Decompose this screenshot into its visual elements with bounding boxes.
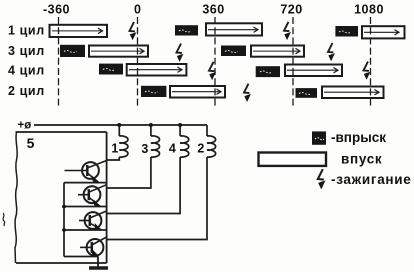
svg-text:-впрыск: -впрыск: [331, 130, 386, 145]
intake box cyl1 cycle1: [50, 25, 108, 37]
legend ignition bolt: [318, 169, 326, 189]
svg-text:+ø: +ø: [18, 119, 32, 131]
ignition mark cyl4 cycle1: [209, 62, 216, 80]
ignition mark cyl4 cycle2: [364, 62, 371, 80]
ignition mark cyl3 cycle1: [177, 44, 184, 62]
emitter rail 1: [64, 182, 107, 184]
injection box cyl1 cycle3: [335, 26, 358, 37]
injection box cyl1 cycle2: [175, 25, 198, 35]
ground: [89, 266, 108, 269]
ignition mark cyl1 cycle2: [284, 22, 291, 40]
intake box cyl2 cycle1: [170, 86, 225, 98]
injection box cyl4 cycle2: [256, 66, 280, 77]
junction coil4: [178, 123, 182, 127]
timeline 360: [214, 17, 216, 106]
transistor VT1: [65, 161, 107, 183]
emitter rail 4: [64, 256, 98, 258]
injection box cyl2 cycle2: [296, 88, 318, 98]
control unit box 5 bottom edge: [16, 262, 107, 264]
coil L1 lead: [118, 125, 120, 136]
transistor VT4: [80, 237, 107, 257]
legend intake swatch: [259, 153, 327, 166]
coil L3 lead: [150, 125, 152, 136]
timeline 720: [292, 17, 294, 106]
junction coil1: [117, 123, 121, 127]
ignition mark cyl3 cycle2: [328, 43, 335, 61]
svg-text:впуск: впуск: [341, 151, 382, 166]
svg-text:360: 360: [202, 3, 224, 17]
transistor VT2: [78, 185, 107, 207]
control unit box 5 torn left edge: [15, 132, 17, 263]
intake box cyl3 cycle2: [251, 46, 304, 57]
intake box cyl4 cycle1: [127, 64, 187, 76]
svg-text:-360: -360: [43, 3, 70, 17]
intake box cyl4 cycle2: [285, 65, 342, 77]
injection box cyl3 cycle2: [221, 46, 246, 57]
emitter rail 2: [64, 206, 107, 208]
injection box cyl4 cycle1: [99, 64, 123, 75]
svg-text:4 цил: 4 цил: [8, 63, 45, 77]
emitter rail 3: [64, 229, 107, 231]
junction coil3: [149, 123, 153, 127]
ignition mark cyl1 cycle1: [130, 22, 137, 40]
svg-text:0: 0: [134, 3, 141, 17]
coil L1 bottom wire: [107, 157, 120, 160]
control unit box 5 right edge: [106, 132, 108, 263]
svg-text:-зажигание: -зажигание: [331, 172, 412, 187]
junction bus rail2: [62, 205, 66, 209]
coil L1: [119, 136, 128, 157]
junction bus rail3: [62, 228, 66, 232]
svg-text:1: 1: [111, 142, 118, 156]
supply wire: [34, 124, 207, 126]
svg-text:2: 2: [197, 142, 204, 156]
coil L4 lead: [179, 125, 181, 136]
svg-text:4: 4: [169, 142, 176, 156]
svg-text:5: 5: [27, 135, 35, 151]
svg-text:1080: 1080: [354, 3, 384, 17]
intake box cyl1 cycle3: [362, 26, 405, 38]
intake box cyl2 cycle2: [322, 87, 384, 99]
timeline 1080: [370, 17, 372, 106]
coil L2 lead: [206, 125, 208, 136]
intake box cyl1 cycle2: [206, 23, 262, 35]
ignition mark cyl2 cycle1: [244, 84, 251, 102]
svg-text:720: 720: [280, 3, 302, 17]
injection box cyl3 cycle1: [60, 45, 85, 57]
svg-text:2 цил: 2 цил: [8, 84, 45, 98]
base bus: [63, 183, 65, 257]
timeline -360: [58, 17, 60, 106]
ground lead: [97, 257, 99, 267]
svg-text:3: 3: [141, 142, 148, 156]
svg-text:1 цил: 1 цил: [8, 24, 45, 38]
coil L2: [207, 136, 216, 157]
intake box cyl3 cycle1: [89, 46, 148, 57]
timeline 0: [137, 17, 139, 106]
legend injection swatch: [312, 131, 326, 144]
coil L3: [151, 136, 160, 157]
injection box cyl2 cycle1: [141, 86, 166, 97]
coil L4 bottom wire: [107, 157, 181, 214]
coil L4: [180, 136, 189, 157]
coil L2 bottom wire: [107, 157, 207, 240]
page tear squiggle: [3, 213, 5, 226]
coil L3 bottom wire: [107, 157, 151, 188]
transistor VT3: [79, 211, 107, 230]
svg-text:3 цил: 3 цил: [8, 44, 45, 58]
control unit box 5 top edge: [16, 131, 107, 133]
